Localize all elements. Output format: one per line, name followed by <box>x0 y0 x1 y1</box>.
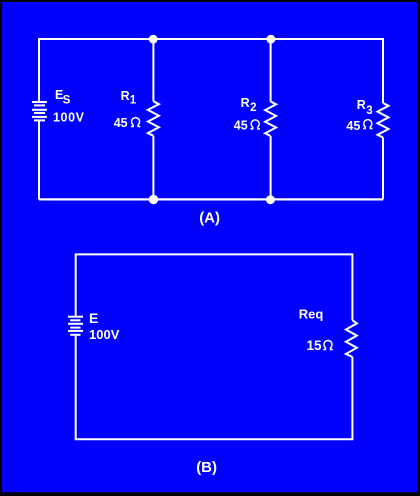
svg-text:Req: Req <box>299 307 324 322</box>
svg-text:(A): (A) <box>199 210 220 227</box>
svg-text:100V: 100V <box>53 110 85 124</box>
svg-text:15: 15 <box>307 338 323 353</box>
svg-text:R: R <box>241 96 250 110</box>
svg-text:E: E <box>89 310 98 326</box>
svg-text:3: 3 <box>366 105 372 117</box>
svg-text:R: R <box>121 89 130 103</box>
svg-text:R: R <box>357 98 366 112</box>
svg-text:2: 2 <box>250 102 256 114</box>
svg-text:45: 45 <box>234 118 248 132</box>
svg-text:100V: 100V <box>89 327 120 342</box>
svg-text:(B): (B) <box>196 459 217 476</box>
svg-text:S: S <box>63 95 71 107</box>
svg-text:45: 45 <box>114 116 128 130</box>
svg-text:45: 45 <box>346 119 360 133</box>
svg-text:1: 1 <box>130 94 137 106</box>
